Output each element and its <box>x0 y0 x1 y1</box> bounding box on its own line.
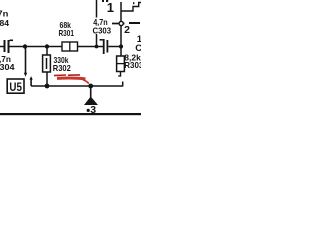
main rail wire R301 to C303 <box>78 46 104 48</box>
svg-text:1: 1 <box>107 0 114 15</box>
capacitor C304 right plate with hook <box>8 40 10 53</box>
junction dot at x=90.7 y=86 <box>88 84 93 89</box>
red annotation stroke thick <box>57 77 86 81</box>
resistor R302 body <box>43 55 51 72</box>
ground triangle <box>84 97 98 106</box>
capacitor C303 value label 4,7n on white patch <box>92 18 111 26</box>
resistor R303 bottom lead with serif <box>120 72 122 77</box>
svg-text:R303: R303 <box>124 60 141 70</box>
net arrow down to U5 <box>25 47 27 74</box>
junction dot at x=121 y=46.5 <box>119 44 123 48</box>
capacitor C303 right plate <box>107 40 109 53</box>
capacitor C304 left plate <box>4 40 6 52</box>
svg-text:2: 2 <box>124 24 130 36</box>
main rail wire C304 to R301 <box>10 46 63 48</box>
main rail wire into C304 <box>0 46 4 48</box>
wire horizontal to pin 2, right segment <box>129 22 140 24</box>
svg-text:U5: U5 <box>9 80 22 94</box>
resistor R302 bottom lead <box>46 72 48 86</box>
junction dot at x=47 <box>45 44 49 48</box>
wire vertical net at x=121 from top to resistor R303 <box>120 2 122 57</box>
top edge glyph stubs <box>102 0 104 2</box>
svg-text:304: 304 <box>0 62 15 72</box>
resistor R303 body <box>117 56 125 72</box>
ground label dot <box>87 109 90 112</box>
capacitor C303 ref label on white patch <box>92 26 113 34</box>
wire vertical net at x=96 from top to main rail <box>96 0 98 47</box>
junction dot at x=96.5 <box>95 45 99 49</box>
ground stem <box>90 86 92 98</box>
net label U5 box <box>7 79 24 93</box>
bottom wire hook up to R303 <box>122 82 124 87</box>
junction dot at x=25 <box>23 44 27 48</box>
net arrow up from U5 into bottom wire <box>29 76 32 79</box>
svg-text:7n: 7n <box>0 9 8 19</box>
wire branch to top-right corner <box>121 3 141 12</box>
junction dot at x=47 y=86 <box>45 84 50 89</box>
svg-text:C3: C3 <box>135 43 141 54</box>
red annotation tail <box>83 80 89 84</box>
node circle at x=121 y=23.5 <box>119 21 123 25</box>
bottom wire <box>31 85 123 87</box>
wire horizontal to pin 2, left segment <box>112 23 125 25</box>
bottom frame line <box>0 113 141 115</box>
resistor R301 body <box>62 42 78 51</box>
resistor R302 top lead <box>46 47 48 56</box>
svg-text:R302: R302 <box>53 63 71 73</box>
capacitor C303 left plate with hook <box>103 39 105 54</box>
red annotation underline thin <box>54 74 80 77</box>
svg-text:R301: R301 <box>59 28 75 38</box>
svg-text:84: 84 <box>0 18 9 28</box>
wire C303 to node <box>108 46 121 48</box>
svg-text:C303: C303 <box>93 26 112 36</box>
